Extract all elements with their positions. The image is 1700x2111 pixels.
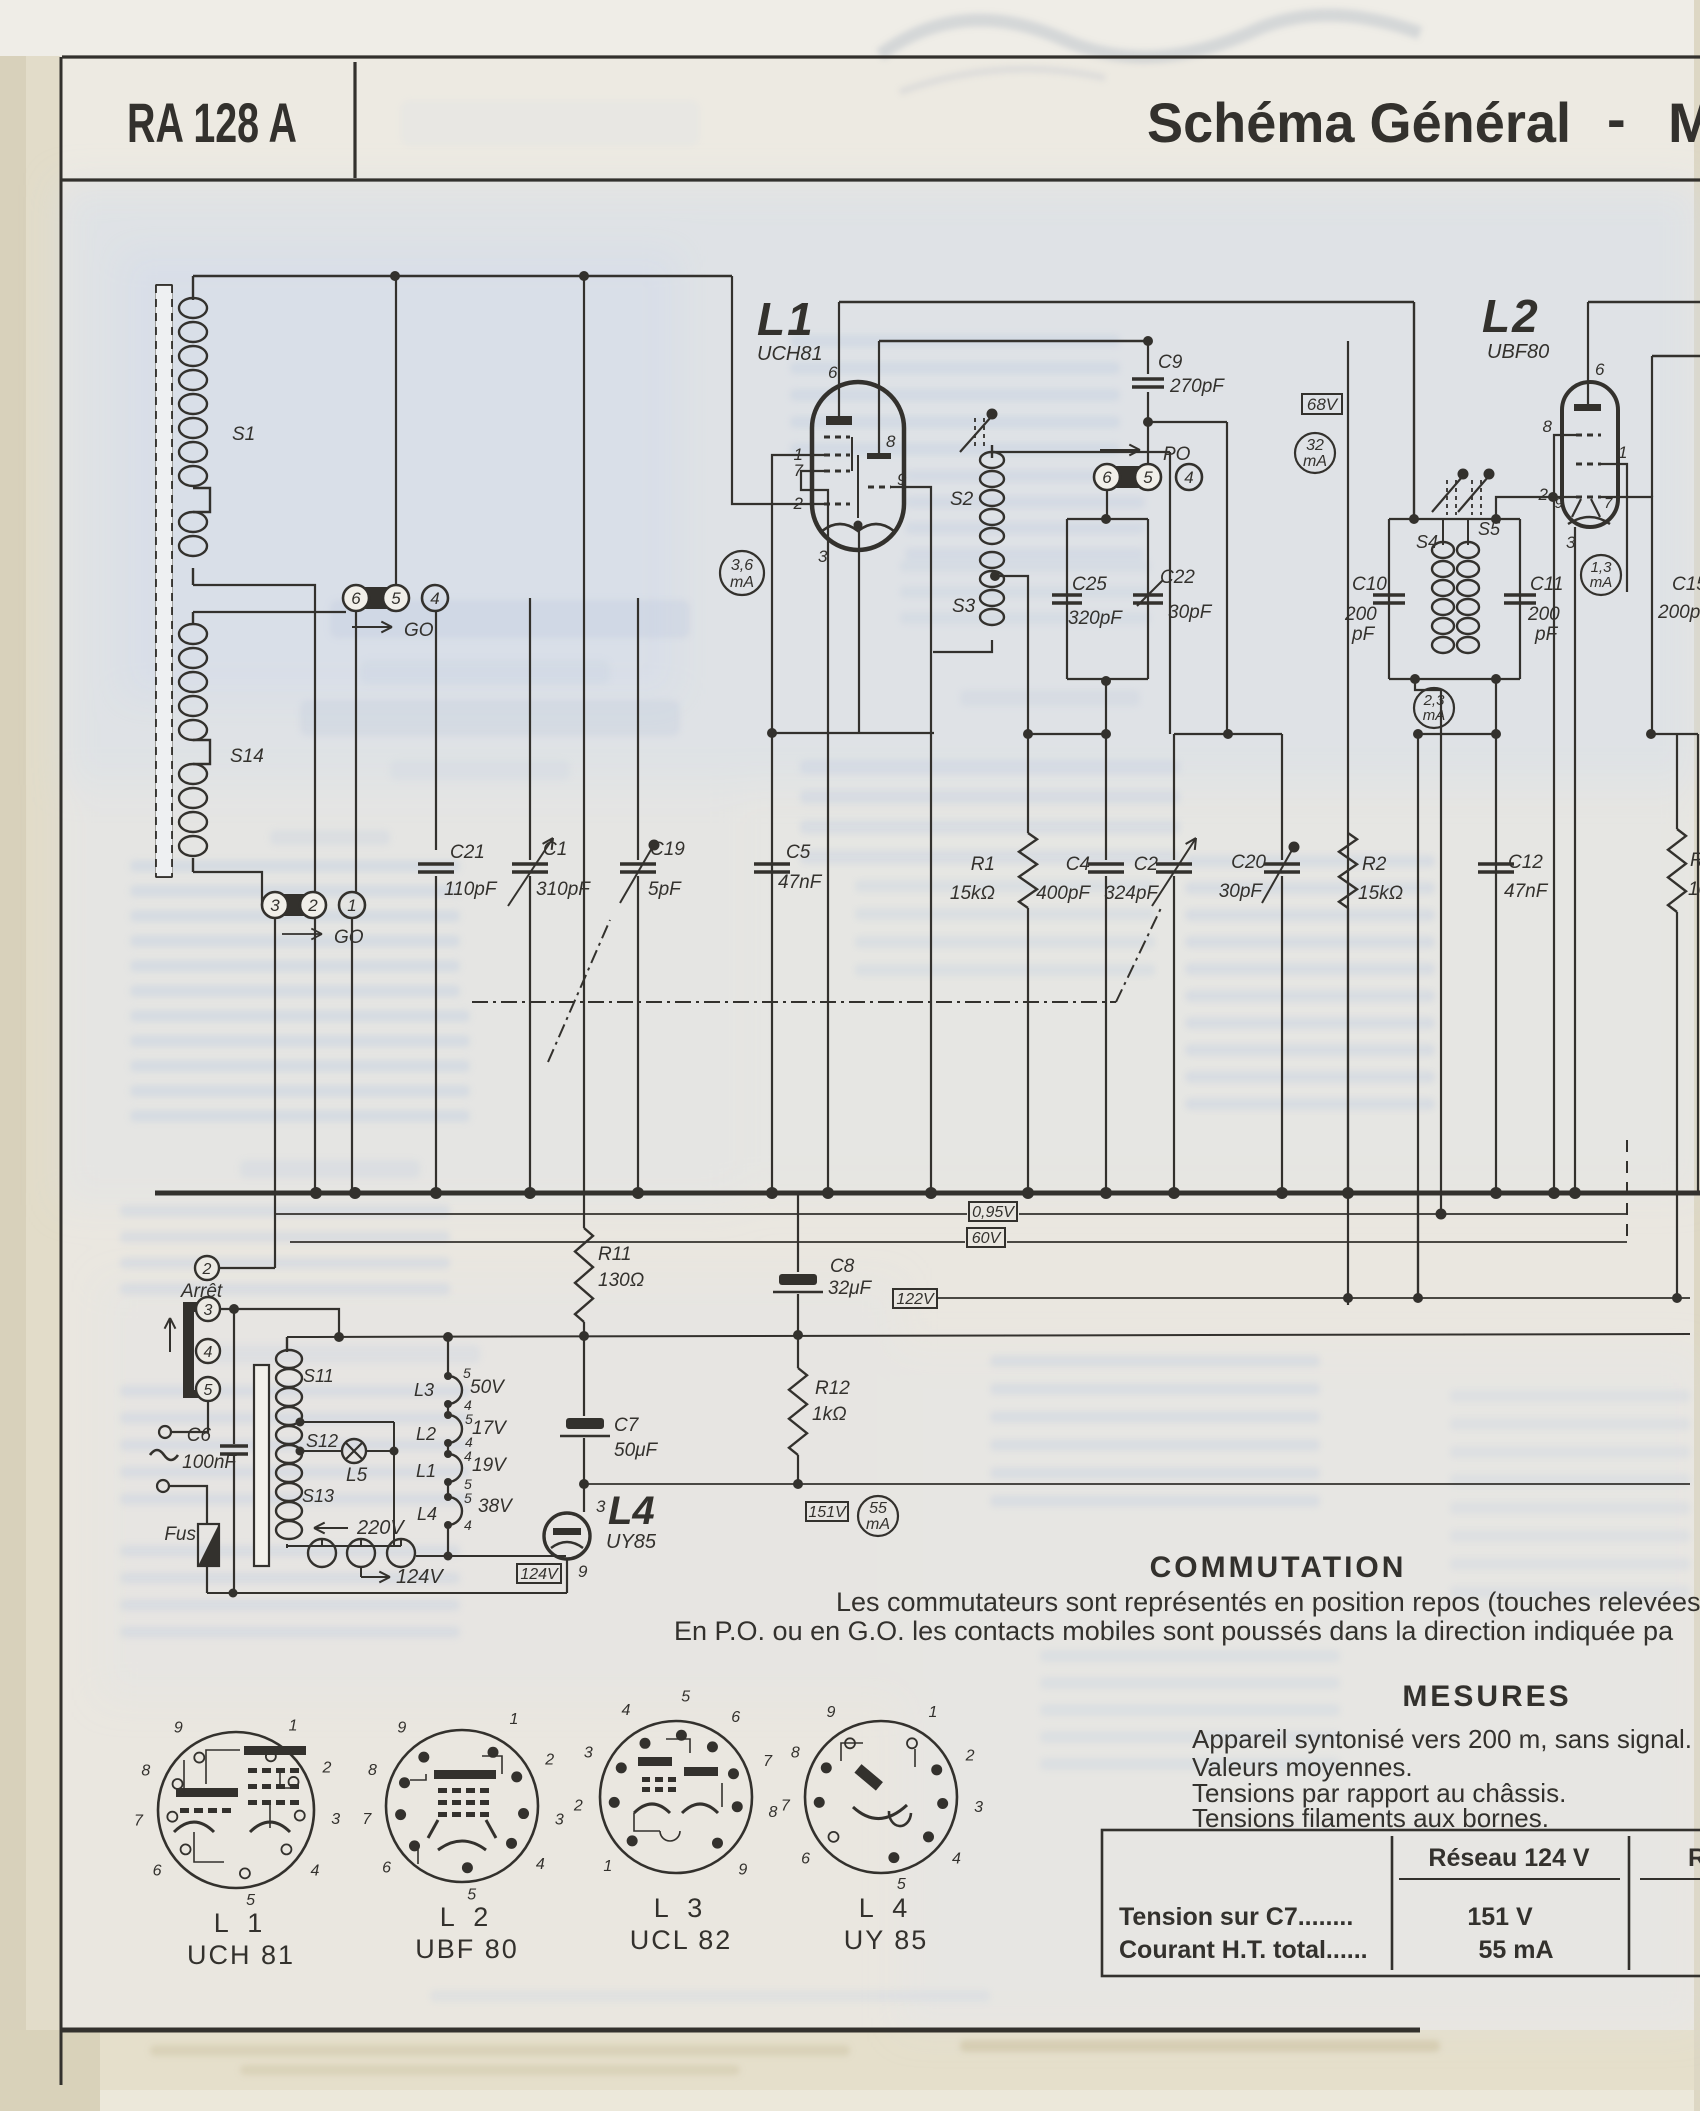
svg-text:6: 6 [801,1851,810,1868]
svg-text:55: 55 [869,1500,887,1517]
svg-text:3,6: 3,6 [731,557,753,574]
svg-text:5: 5 [897,1876,906,1893]
svg-text:1: 1 [603,1858,612,1875]
svg-text:S1: S1 [232,424,255,445]
svg-text:5: 5 [1143,468,1153,487]
svg-text:C12: C12 [1508,852,1543,873]
svg-text:UCL 82: UCL 82 [630,1925,733,1955]
svg-text:5pF: 5pF [648,879,682,900]
svg-text:4: 4 [464,1448,472,1464]
svg-text:C19: C19 [650,839,685,860]
svg-text:mA: mA [1590,574,1613,591]
svg-text:C15: C15 [1672,574,1700,595]
svg-text:S3: S3 [952,596,976,617]
svg-text:S5: S5 [1478,519,1501,539]
svg-text:200: 200 [1527,604,1560,625]
svg-text:Fus: Fus [164,1524,196,1545]
svg-text:6: 6 [828,363,838,382]
svg-text:124V: 124V [520,1566,559,1583]
svg-text:151V: 151V [808,1504,847,1521]
svg-text:8: 8 [1543,417,1553,436]
svg-text:200: 200 [1344,604,1377,625]
svg-text:R: R [1690,850,1700,871]
svg-text:C7: C7 [614,1415,640,1436]
svg-text:400pF: 400pF [1036,883,1091,904]
svg-text:7: 7 [781,1798,791,1815]
svg-text:5: 5 [681,1688,690,1705]
svg-text:55 mA: 55 mA [1478,1936,1553,1964]
svg-text:R11: R11 [598,1244,631,1265]
svg-text:6: 6 [1595,360,1605,379]
svg-text:2: 2 [1538,485,1549,504]
svg-text:mA: mA [866,1516,890,1533]
svg-text:R1: R1 [971,854,995,875]
svg-text:9: 9 [827,1704,836,1721]
svg-text:5: 5 [464,1490,472,1506]
svg-text:4: 4 [1184,468,1193,487]
svg-text:2: 2 [573,1798,583,1815]
svg-text:9: 9 [738,1861,747,1878]
svg-text:3: 3 [974,1799,983,1816]
svg-text:6: 6 [1102,468,1112,487]
svg-text:2: 2 [202,1261,212,1278]
svg-text:32μF: 32μF [828,1278,873,1299]
svg-text:L 1: L 1 [214,1908,269,1938]
svg-text:2: 2 [965,1747,975,1764]
svg-text:6: 6 [153,1862,162,1879]
svg-text:9: 9 [397,1720,406,1737]
svg-text:MESURES: MESURES [1402,1680,1571,1713]
svg-text:270pF: 270pF [1169,376,1225,397]
svg-text:L4: L4 [608,1489,655,1533]
svg-text:100nF: 100nF [182,1452,237,1473]
svg-text:8: 8 [141,1762,150,1779]
svg-text:200pF: 200pF [1657,602,1700,623]
svg-text:0,95V: 0,95V [972,1204,1015,1221]
svg-text:7: 7 [763,1753,773,1770]
svg-text:UBF 80: UBF 80 [415,1934,519,1964]
svg-text:15kΩ: 15kΩ [1358,883,1403,904]
svg-text:C5: C5 [786,842,811,863]
svg-text:GO: GO [404,620,434,641]
svg-text:Schéma Général: Schéma Général [1147,91,1571,154]
svg-text:C22: C22 [1160,567,1195,588]
svg-text:-: - [1607,87,1626,150]
svg-text:4: 4 [952,1851,961,1868]
svg-text:50μF: 50μF [614,1440,659,1461]
svg-text:9: 9 [174,1719,183,1736]
svg-text:Rés: Rés [1688,1844,1700,1872]
svg-text:6: 6 [731,1709,740,1726]
svg-text:1: 1 [1618,443,1627,462]
svg-text:3: 3 [270,896,280,915]
svg-text:mA: mA [730,574,754,591]
svg-text:PO: PO [1163,444,1191,465]
svg-text:Courant H.T. total......: Courant H.T. total...... [1119,1936,1368,1964]
svg-text:COMMUTATION: COMMUTATION [1150,1551,1407,1584]
svg-text:6: 6 [382,1860,391,1877]
svg-text:4: 4 [622,1702,631,1719]
svg-text:68V: 68V [1307,395,1339,414]
svg-text:2: 2 [307,896,318,915]
svg-text:C20: C20 [1231,852,1266,873]
svg-text:1: 1 [289,1718,298,1735]
svg-text:2: 2 [321,1760,331,1777]
svg-text:8: 8 [886,432,896,451]
svg-text:8: 8 [368,1762,377,1779]
svg-text:1: 1 [510,1711,519,1728]
svg-text:7: 7 [362,1811,372,1828]
svg-text:L2: L2 [1482,290,1540,342]
svg-text:Les commutateurs sont repré: Les commutateurs sont représentés en pos… [836,1587,1700,1617]
svg-text:324pF: 324pF [1104,883,1159,904]
svg-text:S4: S4 [1416,532,1438,552]
svg-text:30pF: 30pF [1219,881,1264,902]
svg-text:30pF: 30pF [1168,602,1213,623]
svg-text:S14: S14 [230,746,264,767]
svg-text:L1: L1 [416,1461,436,1481]
svg-text:47nF: 47nF [1504,881,1549,902]
svg-text:4: 4 [310,1862,319,1879]
svg-text:320pF: 320pF [1068,608,1123,629]
svg-text:4: 4 [464,1517,472,1533]
svg-text:50V: 50V [470,1377,506,1398]
svg-text:7: 7 [134,1812,144,1829]
svg-text:S2: S2 [950,489,974,510]
svg-text:3: 3 [596,1497,606,1516]
svg-text:19V: 19V [472,1455,508,1476]
svg-text:1kΩ: 1kΩ [812,1404,847,1425]
svg-text:310pF: 310pF [536,879,591,900]
svg-text:C1: C1 [543,839,567,860]
svg-text:47nF: 47nF [778,872,823,893]
svg-text:Appareil syntonisé vers 200: Appareil syntonisé vers 200 m, sans sign… [1192,1724,1692,1754]
svg-text:151 V: 151 V [1467,1903,1533,1931]
svg-text:Tensions filaments aux born: Tensions filaments aux bornes. [1192,1803,1549,1833]
svg-text:17V: 17V [472,1418,508,1439]
svg-text:3: 3 [818,547,828,566]
svg-text:L 4: L 4 [859,1893,914,1923]
svg-text:2: 2 [544,1752,554,1769]
svg-text:Tension sur C7........: Tension sur C7........ [1119,1903,1353,1931]
svg-text:L 3: L 3 [654,1893,709,1923]
svg-text:R2: R2 [1362,854,1387,875]
svg-text:5: 5 [246,1892,255,1909]
svg-text:UCH 81: UCH 81 [187,1940,295,1970]
svg-text:C11: C11 [1530,574,1563,595]
svg-text:S13: S13 [302,1486,334,1506]
svg-text:C4: C4 [1066,854,1090,875]
svg-text:M: M [1668,91,1700,154]
svg-text:8: 8 [791,1745,800,1762]
svg-text:1: 1 [347,896,356,915]
svg-text:3: 3 [555,1812,564,1829]
svg-text:GO: GO [334,927,364,948]
svg-text:10: 10 [1688,879,1700,900]
svg-text:C9: C9 [1158,352,1183,373]
svg-text:L3: L3 [414,1380,434,1400]
svg-text:3: 3 [204,1302,213,1319]
svg-text:C21: C21 [450,842,485,863]
svg-text:R12: R12 [815,1378,850,1399]
svg-text:Réseau 124 V: Réseau 124 V [1428,1844,1590,1872]
svg-text:UY85: UY85 [606,1531,657,1553]
svg-text:UCH81: UCH81 [757,343,823,365]
svg-text:3: 3 [584,1745,593,1762]
svg-text:L2: L2 [416,1424,436,1444]
svg-text:220V: 220V [356,1517,405,1539]
svg-text:S12: S12 [306,1431,338,1451]
svg-text:RA 128 A: RA 128 A [127,91,297,154]
svg-text:UBF80: UBF80 [1487,341,1549,363]
svg-text:mA: mA [1303,453,1327,470]
svg-text:5: 5 [391,589,401,608]
svg-text:pF: pF [1351,624,1376,645]
svg-text:4: 4 [536,1856,545,1873]
svg-text:L1: L1 [757,293,815,345]
svg-text:15kΩ: 15kΩ [950,883,995,904]
svg-text:130Ω: 130Ω [598,1270,644,1291]
svg-text:60V: 60V [972,1230,1002,1247]
svg-text:6: 6 [351,589,361,608]
svg-text:C2: C2 [1134,854,1159,875]
svg-text:9: 9 [578,1562,588,1581]
svg-text:8: 8 [768,1804,777,1821]
svg-text:S11: S11 [303,1366,334,1386]
svg-text:124V: 124V [396,1566,444,1588]
svg-text:38V: 38V [478,1496,514,1517]
svg-text:mA: mA [1423,707,1446,724]
svg-text:En P.O. ou en G.O. les c: En P.O. ou en G.O. les contacts mobiles … [674,1616,1674,1646]
svg-text:L4: L4 [417,1504,437,1524]
svg-text:1: 1 [929,1704,938,1721]
svg-text:4: 4 [430,589,439,608]
svg-text:L 2: L 2 [440,1902,495,1932]
svg-text:110pF: 110pF [444,879,498,900]
svg-text:122V: 122V [896,1291,935,1308]
svg-text:32: 32 [1306,437,1324,454]
svg-text:5: 5 [204,1382,213,1399]
svg-text:3: 3 [331,1811,340,1828]
svg-text:C25: C25 [1072,574,1107,595]
svg-text:C8: C8 [830,1256,855,1277]
svg-text:4: 4 [204,1344,213,1361]
svg-text:L5: L5 [346,1465,368,1486]
svg-text:UY 85: UY 85 [844,1925,929,1955]
svg-text:C10: C10 [1352,574,1387,595]
